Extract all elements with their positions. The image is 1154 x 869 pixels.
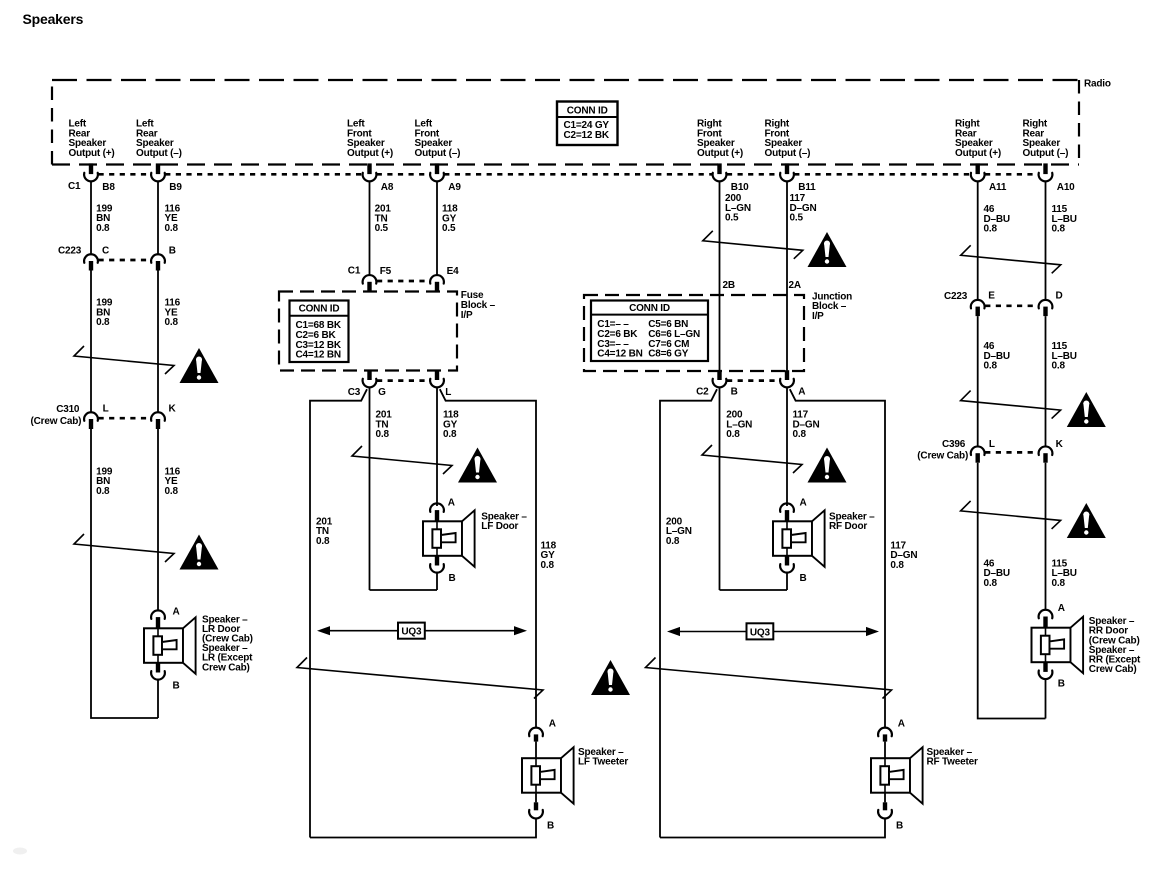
svg-text:C2=12 BK: C2=12 BK (564, 130, 610, 141)
svg-text:B: B (1058, 678, 1065, 689)
warning triangle (RF column upper) (808, 232, 847, 267)
svg-text:B: B (169, 245, 176, 256)
wire 116 YE from C223 to C310 (157, 271, 159, 412)
svg-text:0.8: 0.8 (1052, 361, 1066, 372)
wire from RR speaker B to bottom corner (1045, 680, 1047, 719)
speaker LF Door body (423, 521, 462, 556)
svg-text:L: L (989, 439, 995, 450)
inline connector C310 (Crew Cab) pins L and K (99, 417, 151, 420)
wire 46 D-BU from A11 to C223 (977, 182, 979, 300)
svg-text:A: A (1058, 603, 1065, 614)
svg-text:A10: A10 (1057, 182, 1075, 193)
UQ3 option span arrow (RF) (671, 631, 875, 633)
wire from LR speaker B to bottom corner (157, 680, 159, 718)
fuse block I/P (dashed outline) (279, 292, 457, 371)
splice note marker (RR column middle) (961, 391, 1061, 419)
harness note marker (RF loop, long) (646, 658, 892, 699)
splice note marker (RF column) (702, 445, 802, 473)
svg-text:A8: A8 (381, 182, 394, 193)
svg-text:0.8: 0.8 (96, 486, 110, 497)
svg-text:0.8: 0.8 (1052, 224, 1066, 235)
splice note marker (RR column lower) (961, 501, 1061, 529)
wire 201 TN from G straight down to jog (369, 388, 371, 590)
svg-text:RF Tweeter: RF Tweeter (927, 757, 978, 768)
wire 117 D-GN from A straight down to RF speaker A (786, 388, 788, 506)
wire 201 TN from A8 to fuse block F5 (369, 182, 371, 275)
wire jog to RF speaker B (720, 589, 788, 591)
svg-text:C223: C223 (944, 291, 968, 302)
svg-text:0.8: 0.8 (165, 486, 179, 497)
svg-text:0.8: 0.8 (793, 429, 807, 440)
svg-text:2A: 2A (789, 280, 801, 291)
svg-text:L: L (103, 404, 109, 415)
svg-text:I/P: I/P (461, 310, 473, 321)
svg-text:0.8: 0.8 (96, 223, 110, 234)
speaker LR terminal A connector (151, 610, 165, 619)
speaker LF Door terminal B connector (435, 556, 439, 566)
svg-text:2B: 2B (723, 280, 735, 291)
svg-text:A: A (448, 498, 455, 509)
svg-text:C4=12 BN: C4=12 BN (597, 349, 642, 360)
svg-text:0.8: 0.8 (890, 560, 904, 571)
wires through junction block (719, 296, 721, 371)
wire 199 BN from B8 to C223 (90, 182, 92, 254)
speaker RR body (1032, 628, 1071, 663)
svg-text:0.8: 0.8 (984, 578, 998, 589)
svg-text:0.5: 0.5 (790, 213, 804, 224)
tweeter LF terminal A connector (529, 728, 543, 737)
svg-text:L: L (445, 387, 451, 398)
svg-text:Crew Cab): Crew Cab) (1089, 664, 1137, 675)
radio terminal A11 pin and connector (976, 163, 980, 174)
svg-text:B: B (896, 821, 903, 832)
harness note marker (LF loop, long) (297, 658, 543, 699)
svg-text:A: A (798, 386, 805, 397)
radio terminal B9 pin and connector (156, 163, 160, 174)
svg-text:0.8: 0.8 (376, 429, 390, 440)
svg-text:C396: C396 (942, 439, 966, 450)
speaker LF Door terminal A connector (430, 503, 444, 512)
svg-text:0.8: 0.8 (316, 536, 330, 547)
fuse block top connectors C1: F5 and E4 (377, 280, 430, 283)
wire 118 GY from A9 to fuse block E4 (436, 182, 438, 275)
wire 46 D-BU from C396 down to RR speaker B (with corner) (978, 463, 1046, 719)
svg-text:Output (–): Output (–) (415, 148, 461, 159)
svg-text:UQ3: UQ3 (750, 627, 771, 638)
svg-text:0.8: 0.8 (984, 361, 998, 372)
speaker RF Door body (773, 521, 812, 556)
svg-text:Output (–): Output (–) (136, 148, 182, 159)
warning triangle (LF loop) (591, 660, 630, 695)
wire jog to LF speaker B (370, 589, 438, 591)
speaker RR terminal B connector (1043, 662, 1047, 672)
svg-text:B9: B9 (169, 182, 182, 193)
svg-text:0.8: 0.8 (96, 317, 110, 328)
svg-text:F5: F5 (380, 266, 392, 277)
svg-text:E4: E4 (447, 266, 459, 277)
CONN ID table (radio) (557, 102, 618, 146)
svg-text:B: B (800, 573, 807, 584)
svg-text:(Crew Cab): (Crew Cab) (31, 416, 82, 427)
svg-text:0.8: 0.8 (984, 224, 998, 235)
wire 115 L-BU from C396 to RR speaker A (1045, 463, 1047, 610)
UQ3 option box (LF) (398, 623, 425, 639)
wire 46 D-BU from C223 to C396 (977, 316, 979, 446)
radio terminal B8 pin and connector (89, 163, 93, 174)
speaker RF Door terminal B connector (785, 556, 789, 566)
tweeter RF terminal B connector (884, 793, 886, 803)
svg-text:K: K (1056, 439, 1064, 450)
svg-text:A9: A9 (448, 182, 461, 193)
radio terminal B11 pin and connector (785, 163, 789, 174)
svg-text:C2: C2 (696, 386, 709, 397)
wire 117 D-GN from B11 to junction block (786, 182, 788, 296)
UQ3 option span arrow (LF) (321, 630, 523, 632)
svg-text:B: B (731, 386, 738, 397)
warning triangle (RR column middle) (1067, 392, 1106, 427)
svg-text:A11: A11 (989, 182, 1007, 193)
svg-text:B: B (449, 573, 456, 584)
speaker RF Tweeter body (871, 758, 910, 793)
svg-text:I/P: I/P (812, 311, 824, 322)
tweeter RF terminal A connector (878, 728, 892, 737)
svg-text:C1: C1 (68, 181, 81, 192)
svg-text:0.8: 0.8 (443, 429, 457, 440)
wire 118 GY branch from L to right rail (440, 389, 536, 727)
radio terminal A8 pin and connector (367, 163, 371, 174)
junction block I/P (dashed outline) (584, 295, 804, 371)
svg-text:C4=12 BN: C4=12 BN (296, 350, 341, 361)
wire 118 GY from L straight down to LF speaker A (436, 388, 438, 506)
svg-text:E: E (988, 291, 995, 302)
svg-text:LF Tweeter: LF Tweeter (578, 757, 628, 768)
speaker LR body (144, 628, 183, 663)
inline connector C223 (left, pins C and B) (99, 259, 151, 262)
svg-text:B10: B10 (731, 182, 749, 193)
splice note marker (RR column upper) (961, 245, 1061, 273)
wire 117 D-GN branch from A to right rail (790, 389, 885, 727)
svg-text:A: A (800, 498, 807, 509)
junction block bottom connectors: C2 B and A (727, 379, 780, 382)
scan smudge (13, 848, 27, 855)
radio (dashed outline) (52, 79, 1079, 81)
svg-text:C1: C1 (348, 266, 361, 277)
LF loop bottom rail (310, 819, 536, 838)
svg-text:0.5: 0.5 (375, 223, 389, 234)
svg-text:Speakers: Speakers (23, 11, 84, 27)
warning triangle (RF column) (808, 448, 847, 483)
warning triangle (left column upper) (180, 348, 219, 383)
svg-text:Output (–): Output (–) (1023, 148, 1069, 159)
svg-text:Output (–): Output (–) (765, 148, 811, 159)
splice note marker (RF column upper) (703, 231, 803, 259)
svg-text:C: C (102, 245, 109, 256)
svg-text:CONN ID: CONN ID (299, 304, 340, 315)
svg-text:K: K (169, 404, 177, 415)
svg-text:Crew Cab): Crew Cab) (202, 662, 250, 673)
svg-text:B11: B11 (798, 182, 816, 193)
inline connector C396 (Crew Cab) pins L and K (985, 451, 1038, 454)
inline connector C223 (right, pins E and D) (985, 304, 1038, 307)
svg-text:0.5: 0.5 (725, 213, 739, 224)
wire 115 L-BU from A10 to C223 (1045, 182, 1047, 300)
svg-text:A: A (549, 719, 556, 730)
svg-text:Output (+): Output (+) (955, 148, 1001, 159)
svg-text:CONN ID: CONN ID (567, 105, 608, 116)
svg-text:0.8: 0.8 (1052, 578, 1066, 589)
wire 201 TN branch from G to left rail (310, 389, 367, 837)
speaker LF Tweeter body (522, 758, 561, 793)
svg-text:B: B (173, 681, 180, 692)
svg-text:RF Door: RF Door (829, 521, 867, 532)
radio connector C1 face (dotted) (99, 173, 151, 176)
svg-text:CONN ID: CONN ID (629, 303, 670, 314)
svg-text:0.8: 0.8 (726, 429, 740, 440)
wire 116 YE from B9 to C223 (157, 182, 159, 254)
wire 116 YE from C310 to LR speaker A (157, 429, 159, 610)
warning triangle (LF column) (458, 448, 497, 483)
splice note marker (left column lower) (74, 534, 174, 562)
splice note marker (LF column) (352, 446, 452, 474)
speaker RF Door terminal A connector (780, 503, 794, 512)
UQ3 option box (RF) (747, 623, 774, 639)
svg-text:0.8: 0.8 (666, 536, 680, 547)
speaker LR terminal B connector (156, 663, 160, 673)
wire 199 BN from C223 to C310 (90, 271, 92, 412)
splice note marker (left column upper) (74, 346, 174, 374)
wire from LF speaker B to jog (436, 573, 438, 590)
svg-text:Radio: Radio (1084, 78, 1111, 89)
svg-text:0.8: 0.8 (165, 317, 179, 328)
radio terminal A9 pin and connector (435, 163, 439, 174)
svg-text:UQ3: UQ3 (401, 627, 422, 638)
warning triangle (left column lower) (180, 535, 219, 570)
svg-text:0.8: 0.8 (541, 560, 555, 571)
RF loop bottom rail (660, 819, 885, 838)
wire 199 BN from C310 down to LR speaker B (with corner) (91, 429, 158, 718)
svg-text:(Crew Cab): (Crew Cab) (917, 451, 968, 462)
svg-text:LF Door: LF Door (481, 521, 518, 532)
svg-text:Output (+): Output (+) (69, 148, 115, 159)
CONN ID table (junction block) (591, 301, 708, 362)
svg-text:B8: B8 (102, 182, 115, 193)
wire 200 L-GN from B straight down to jog (719, 388, 721, 590)
svg-text:0.8: 0.8 (165, 223, 179, 234)
tweeter LF terminal B connector (535, 793, 537, 803)
speaker RR terminal A connector (1039, 610, 1053, 619)
wire 115 L-BU from C223 to C396 (1045, 316, 1047, 446)
svg-text:A: A (898, 719, 905, 730)
wire 200 L-GN branch from B to left rail (660, 389, 717, 837)
CONN ID table (fuse block) (290, 301, 349, 363)
radio terminal A10 pin and connector (1043, 163, 1047, 174)
svg-text:C223: C223 (58, 245, 82, 256)
svg-text:G: G (378, 387, 386, 398)
svg-text:0.5: 0.5 (442, 223, 456, 234)
fuse block bottom connectors: C3 G and L (377, 379, 430, 382)
warning triangle (RR column lower) (1067, 503, 1106, 538)
svg-text:C3: C3 (348, 387, 361, 398)
svg-text:D: D (1056, 291, 1063, 302)
svg-text:C8=6 GY: C8=6 GY (648, 349, 689, 360)
svg-text:Output (+): Output (+) (347, 148, 393, 159)
svg-text:Output (+): Output (+) (697, 148, 743, 159)
wire 200 L-GN from B10 to junction block (719, 182, 721, 296)
svg-text:C310: C310 (56, 404, 80, 415)
radio terminal B10 pin and connector (717, 163, 721, 174)
svg-text:A: A (173, 607, 180, 618)
wire from RF speaker B to jog (786, 573, 788, 590)
svg-text:B: B (547, 821, 554, 832)
